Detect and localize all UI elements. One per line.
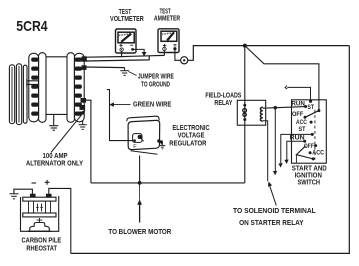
wire: bus alternator T1 to meters <box>86 55 164 57</box>
alternator terminal T4 <box>80 105 86 110</box>
ground: jumper wire to ground <box>120 68 129 76</box>
wire: voltmeter - probe with down arrow <box>134 49 146 55</box>
svg-text:REGULATOR: REGULATOR <box>169 139 207 148</box>
field loads relay K1 <box>237 100 265 125</box>
regulator right terminal with ground <box>157 139 160 142</box>
rheostat polarity labels <box>32 182 37 184</box>
svg-text:RELAY: RELAY <box>214 98 232 107</box>
wire: to blower motor with up arrow <box>138 183 141 223</box>
wire: junction up to regulator <box>139 156 141 183</box>
wire: connector up to top rail <box>187 46 349 61</box>
svg-text:OFF: OFF <box>292 111 304 118</box>
switch lower arm <box>296 146 313 159</box>
leader arrow to solenoid wire <box>269 183 277 206</box>
svg-text:ALTERNATOR ONLY: ALTERNATOR ONLY <box>26 159 83 168</box>
svg-text:ACC: ACC <box>296 119 307 126</box>
alternator left fins <box>31 58 38 116</box>
wire: junction dangling down (accessory feed) <box>274 108 277 175</box>
regulator F terminal block <box>133 134 142 143</box>
node: field bus junction <box>138 181 142 185</box>
leader jumper label <box>129 72 137 76</box>
wire: jumper from T2 <box>86 66 125 69</box>
wire: rheostat - to ground <box>14 189 33 194</box>
alternator terminal T3 (field) <box>81 98 87 103</box>
alternator body <box>29 53 84 123</box>
green wire <box>107 90 133 141</box>
wire: ammeter + drop <box>163 51 165 56</box>
wire: right side down and bottom <box>71 46 350 254</box>
svg-text:5CR4: 5CR4 <box>16 18 48 35</box>
relay coil <box>260 107 262 121</box>
wire: rheostat + to bottom rail <box>49 188 71 253</box>
label TEST AMMETER <box>154 7 181 23</box>
switch lower contacts <box>311 133 314 136</box>
ground under alternator body <box>49 114 58 130</box>
svg-text:AMMETER: AMMETER <box>154 14 181 23</box>
test voltmeter M1 <box>116 29 137 53</box>
alternator terminal T1 (top, BAT) <box>82 56 87 61</box>
alternator pulley <box>9 64 39 125</box>
node: switch top dot <box>309 100 312 103</box>
wire: voltmeter + drop <box>121 51 123 56</box>
label TEST VOLTMETER <box>110 7 144 23</box>
switch upper contacts <box>304 105 307 108</box>
wire: ST terminal dangling <box>279 134 312 166</box>
switch mechanical dashed link <box>314 110 316 160</box>
node: top junction <box>243 44 247 48</box>
svg-text:TO SOLENOID TERMINAL: TO SOLENOID TERMINAL <box>233 206 316 215</box>
wire: ammeter right terminal to connector <box>175 50 181 60</box>
svg-text:ON STARTER RELAY: ON STARTER RELAY <box>239 218 304 227</box>
electronic voltage regulator U1 <box>127 116 160 154</box>
svg-text:RUN: RUN <box>290 135 305 142</box>
connector eyelet <box>181 57 188 64</box>
ground at rheostat <box>10 194 19 199</box>
node: coil wire junction <box>274 106 277 109</box>
wire: junction down to relay contact <box>244 46 246 105</box>
rheostat frame and knob <box>21 196 59 231</box>
carbon pile rheostat R1 <box>23 194 56 217</box>
wire: RUN terminal dangling <box>285 141 305 163</box>
wire: coil bottom dangling (to solenoid) <box>263 121 268 182</box>
wire: second line from T1 merging at x149 <box>86 56 149 61</box>
svg-text:ST: ST <box>299 126 306 133</box>
svg-text:VOLTMETER: VOLTMETER <box>110 14 144 23</box>
ground at alternator rear terminal <box>79 120 87 129</box>
wire: diagonal from junction to switch feed <box>245 46 319 111</box>
svg-text:ST: ST <box>307 104 314 111</box>
svg-text:GREEN WIRE: GREEN WIRE <box>133 100 172 109</box>
svg-text:RUN: RUN <box>291 100 305 107</box>
leader arrow to alternator <box>51 111 85 153</box>
wire: field bus horizontal <box>91 182 245 184</box>
svg-text:TO BLOWER MOTOR: TO BLOWER MOTOR <box>108 227 172 236</box>
svg-text:SWITCH: SWITCH <box>298 177 321 186</box>
switch upper arm <box>305 111 319 118</box>
svg-text:F: F <box>133 144 137 150</box>
hook wire to switch ST top <box>285 86 310 101</box>
svg-text:RHEOSTAT: RHEOSTAT <box>26 244 57 253</box>
wire: coil top to switch RUN <box>263 107 306 109</box>
test ammeter M2 <box>158 29 179 53</box>
alternator right fins <box>75 58 82 116</box>
svg-text:TO GROUND: TO GROUND <box>141 79 170 88</box>
wire: alternator T3 to field bus <box>86 100 91 183</box>
wire: relay contact bottom down <box>244 120 246 183</box>
alternator terminal T2 (jumper) <box>82 65 87 70</box>
start and ignition switch S1 box <box>292 100 327 163</box>
svg-text:ACC: ACC <box>312 150 324 157</box>
